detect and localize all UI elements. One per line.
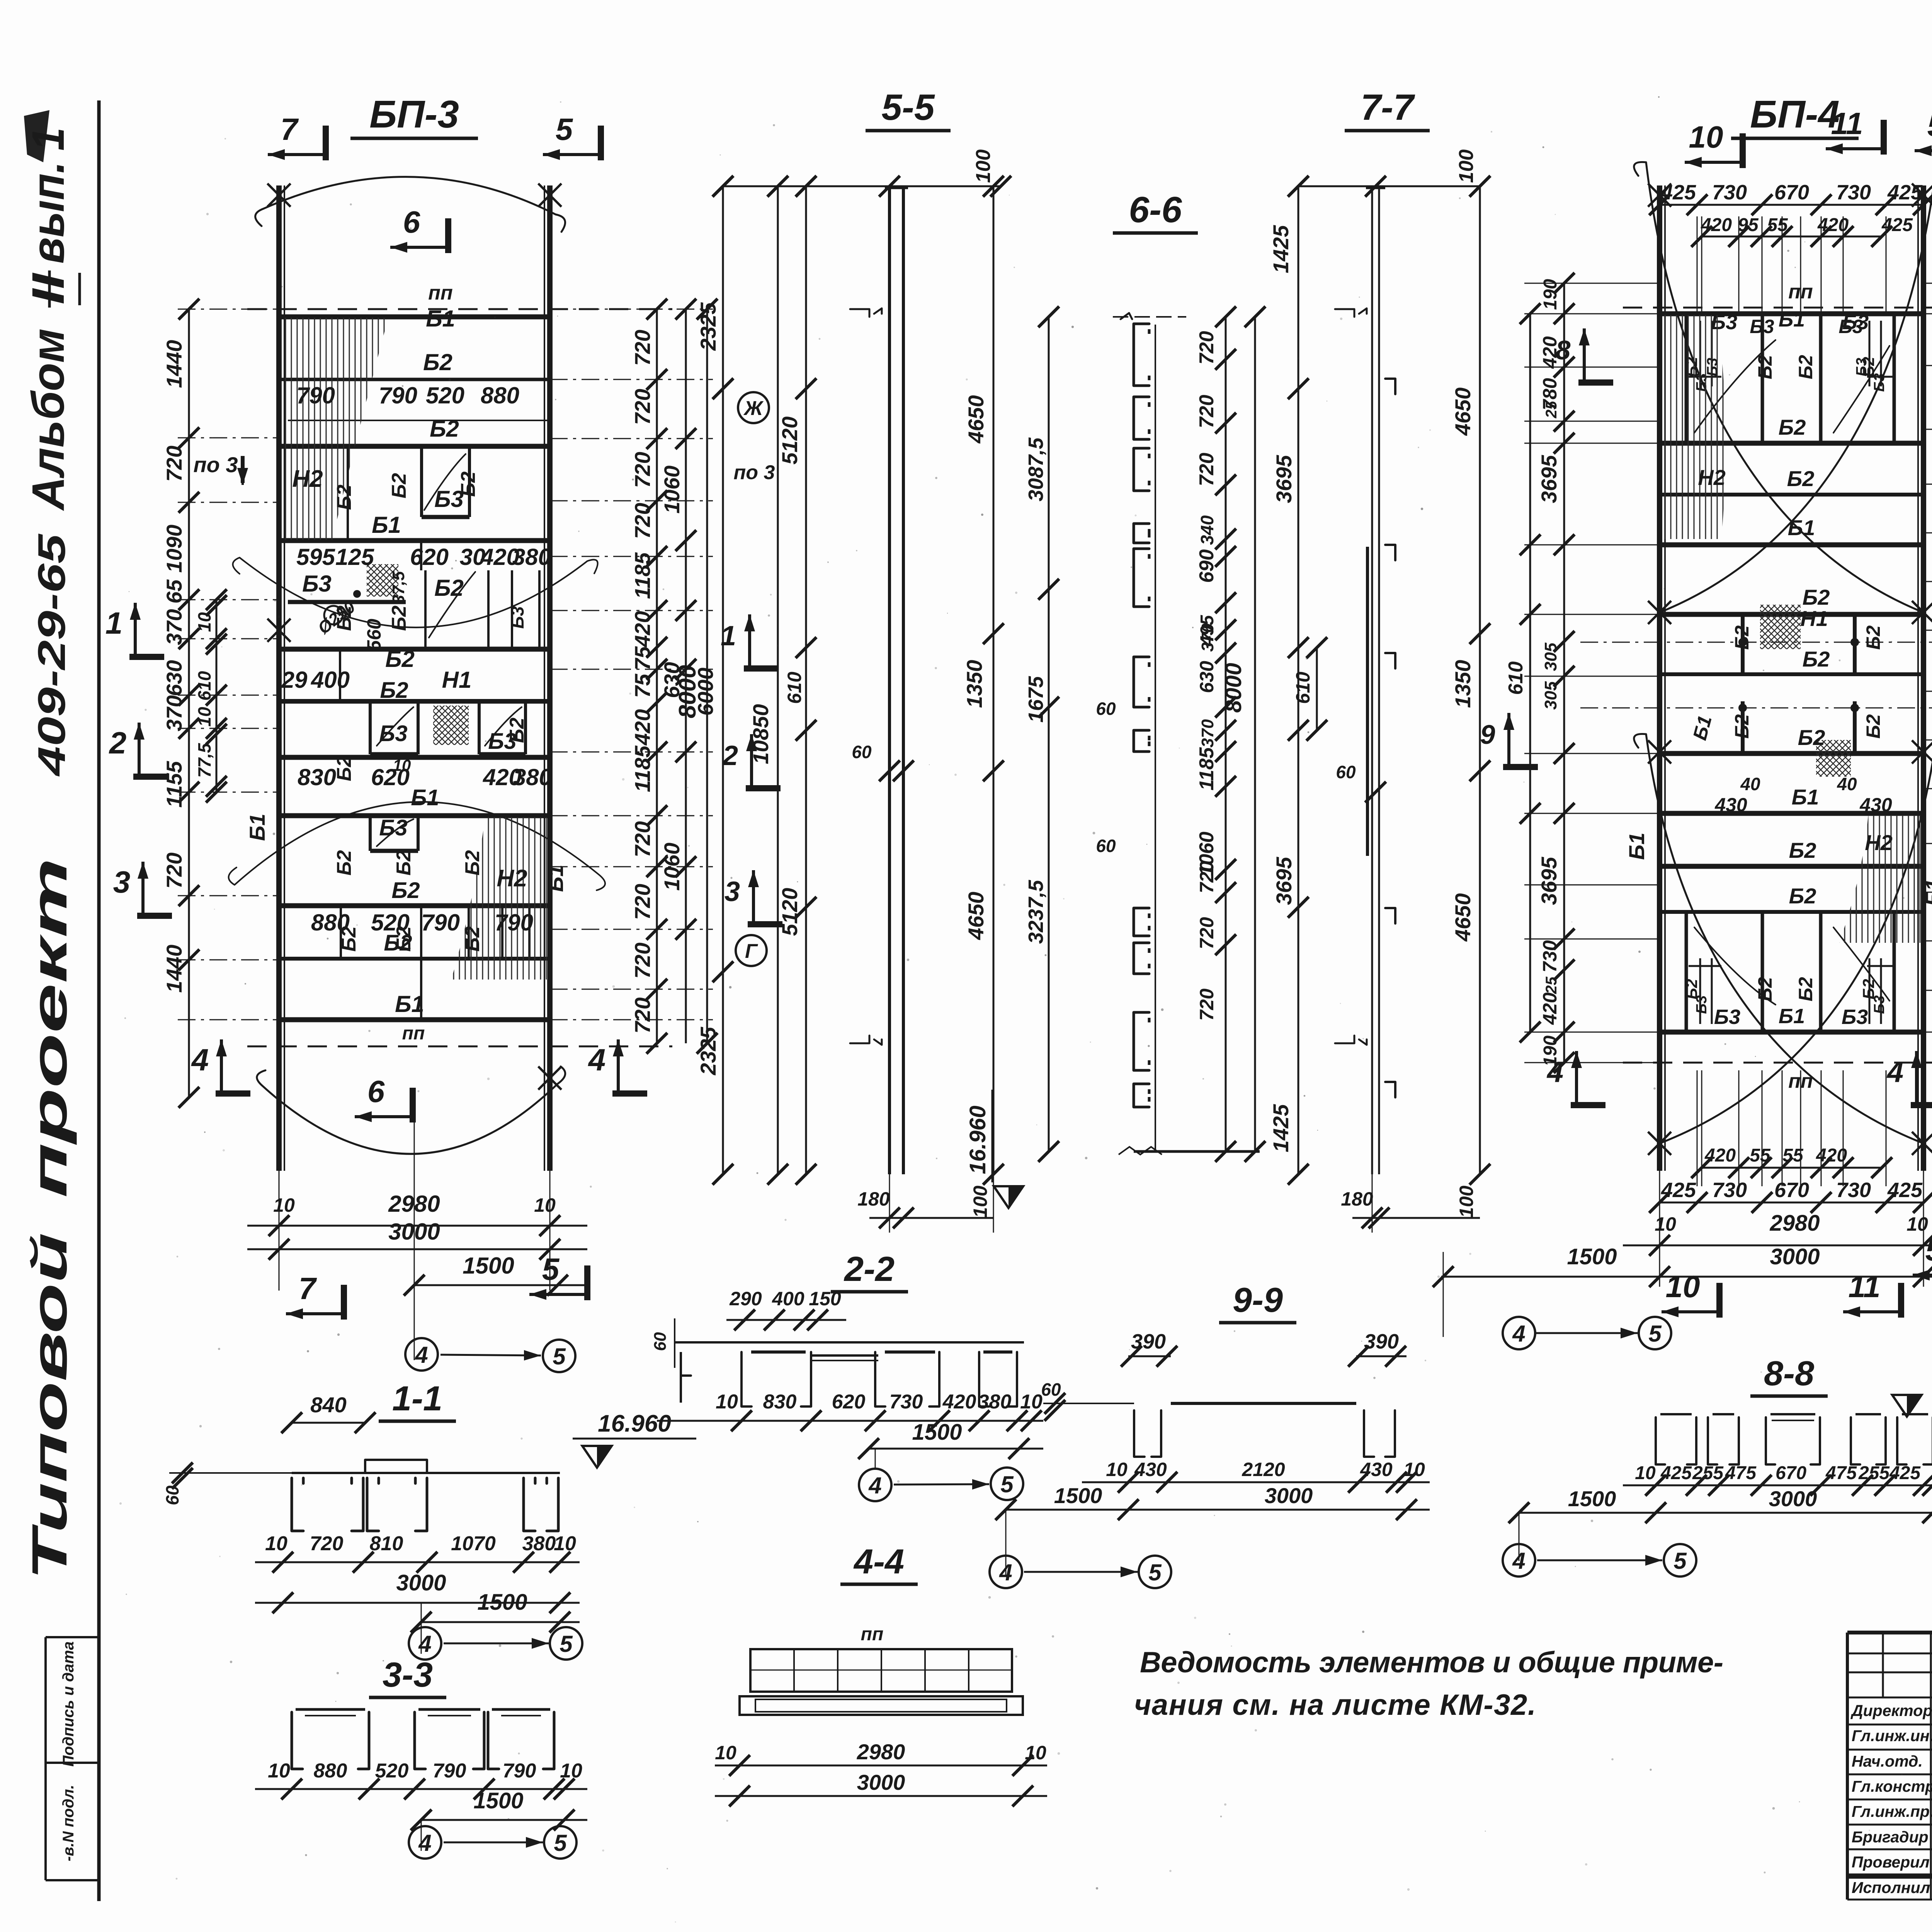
svg-text:4: 4	[415, 1342, 428, 1368]
svg-text:420: 420	[1817, 215, 1849, 235]
svg-text:60: 60	[1096, 699, 1116, 719]
svg-text:790: 790	[296, 383, 335, 408]
svg-text:390: 390	[1364, 1330, 1399, 1353]
svg-text:Б1: Б1	[1624, 833, 1649, 860]
svg-text:720: 720	[1196, 453, 1218, 486]
svg-text:720: 720	[630, 821, 655, 857]
svg-text:Б2: Б2	[1787, 466, 1815, 491]
svg-text:Б1: Б1	[1792, 785, 1819, 809]
svg-text:по 3: по 3	[193, 452, 238, 477]
svg-text:5: 5	[560, 1631, 573, 1657]
svg-text:720: 720	[1196, 988, 1218, 1021]
svg-text:6: 6	[403, 205, 420, 239]
svg-text:720: 720	[630, 942, 655, 978]
svg-text:10: 10	[273, 1194, 295, 1216]
svg-text:Б2: Б2	[333, 850, 355, 876]
svg-text:610: 610	[1292, 672, 1314, 704]
svg-text:Б1: Б1	[543, 865, 568, 892]
svg-text:Б2: Б2	[506, 718, 528, 743]
svg-text:10: 10	[715, 1742, 736, 1764]
svg-text:1: 1	[23, 128, 74, 151]
svg-text:4: 4	[999, 1560, 1012, 1585]
svg-text:3000: 3000	[1769, 1486, 1817, 1511]
svg-text:Б3: Б3	[1750, 316, 1774, 337]
svg-text:2: 2	[109, 726, 127, 760]
svg-text:5: 5	[556, 112, 573, 146]
svg-text:4: 4	[1512, 1548, 1525, 1574]
svg-text:пп: пп	[402, 1023, 425, 1044]
svg-text:10: 10	[1020, 1391, 1043, 1413]
svg-text:10: 10	[1655, 1213, 1676, 1235]
svg-text:Б2: Б2	[333, 756, 355, 781]
svg-text:1185: 1185	[630, 552, 655, 599]
svg-text:4: 4	[1886, 1056, 1903, 1088]
svg-text:2980: 2980	[1769, 1211, 1820, 1236]
svg-text:Б2: Б2	[1803, 647, 1830, 671]
svg-text:Б1: Б1	[395, 991, 424, 1017]
svg-text:380: 380	[522, 1532, 556, 1555]
svg-text:4: 4	[1512, 1321, 1525, 1347]
svg-text:720: 720	[162, 446, 186, 481]
svg-text:10: 10	[1666, 1269, 1700, 1304]
svg-text:610: 610	[194, 671, 214, 701]
svg-text:Б2: Б2	[1789, 838, 1816, 862]
svg-text:370: 370	[1198, 623, 1217, 652]
svg-text:6-6: 6-6	[1129, 189, 1182, 230]
svg-text:370: 370	[162, 695, 186, 731]
svg-text:425: 425	[1661, 181, 1696, 204]
svg-text:880: 880	[314, 1760, 347, 1782]
svg-text:95: 95	[1738, 215, 1759, 235]
svg-text:Б1: Б1	[1779, 1005, 1805, 1028]
svg-text:10: 10	[554, 1532, 576, 1555]
svg-text:720: 720	[630, 997, 655, 1033]
svg-text:37,5: 37,5	[389, 571, 408, 604]
svg-text:2980: 2980	[857, 1740, 905, 1764]
svg-text:Б3: Б3	[1838, 316, 1863, 337]
svg-text:1425: 1425	[1269, 1104, 1293, 1152]
svg-text:380: 380	[513, 764, 552, 790]
svg-text:Б2: Б2	[1798, 725, 1825, 750]
svg-text:Подпись и дата: Подпись и дата	[60, 1641, 77, 1767]
svg-text:Б2: Б2	[1779, 415, 1806, 439]
svg-text:400: 400	[772, 1288, 804, 1310]
svg-text:670: 670	[1774, 181, 1809, 204]
svg-text:5-5: 5-5	[881, 87, 935, 128]
svg-text:730: 730	[889, 1391, 923, 1413]
svg-text:1440: 1440	[162, 340, 186, 388]
svg-text:Гл.констр.: Гл.констр.	[1852, 1777, 1932, 1795]
svg-text:1500: 1500	[912, 1420, 962, 1445]
svg-text:840: 840	[310, 1393, 346, 1417]
svg-text:75: 75	[630, 673, 655, 698]
svg-text:Б3: Б3	[1842, 1005, 1868, 1029]
svg-text:Б2: Б2	[388, 605, 410, 631]
svg-text:730: 730	[1836, 1179, 1871, 1202]
svg-text:290: 290	[729, 1288, 762, 1310]
svg-text:6000: 6000	[693, 668, 718, 716]
svg-text:Альбом: Альбом	[23, 328, 74, 511]
svg-text:830: 830	[298, 764, 336, 790]
svg-text:430: 430	[1134, 1459, 1167, 1480]
svg-text:10: 10	[1635, 1463, 1656, 1483]
svg-text:670: 670	[1774, 1179, 1809, 1202]
svg-text:180: 180	[857, 1188, 890, 1210]
svg-text:720: 720	[1196, 331, 1218, 365]
svg-text:Г: Г	[745, 940, 758, 963]
svg-text:4: 4	[418, 1631, 431, 1657]
svg-text:4650: 4650	[1451, 388, 1475, 436]
svg-text:520: 520	[426, 383, 464, 408]
svg-text:1350: 1350	[962, 660, 986, 708]
svg-text:40: 40	[1837, 774, 1857, 794]
svg-text:Б2: Б2	[423, 349, 452, 375]
svg-text:630: 630	[1196, 661, 1218, 693]
svg-text:5: 5	[553, 1344, 566, 1369]
svg-text:5120: 5120	[777, 888, 802, 936]
svg-text:1185: 1185	[1196, 747, 1218, 791]
svg-text:10: 10	[560, 1760, 582, 1782]
svg-text:1060: 1060	[660, 466, 684, 514]
svg-text:10: 10	[393, 756, 411, 774]
svg-text:1500: 1500	[1567, 1244, 1617, 1269]
svg-text:проект: проект	[22, 858, 77, 1198]
svg-text:730: 730	[1712, 1179, 1747, 1202]
svg-text:730: 730	[1539, 940, 1561, 973]
svg-text:Исполнил: Исполнил	[1852, 1879, 1930, 1896]
svg-text:БП-3: БП-3	[369, 93, 459, 136]
svg-text:10: 10	[265, 1532, 287, 1555]
svg-text:720: 720	[1196, 395, 1218, 429]
svg-text:3695: 3695	[1537, 455, 1561, 503]
svg-text:16.960: 16.960	[598, 1410, 671, 1437]
svg-text:Б2: Б2	[434, 575, 464, 601]
svg-text:100: 100	[1456, 1185, 1477, 1218]
svg-text:255: 255	[1858, 1463, 1890, 1483]
svg-text:4650: 4650	[1451, 893, 1475, 942]
svg-text:3000: 3000	[396, 1570, 446, 1595]
svg-text:10: 10	[268, 1760, 290, 1782]
svg-text:3000: 3000	[1770, 1244, 1820, 1269]
svg-text:1500: 1500	[477, 1590, 527, 1615]
svg-text:2-2: 2-2	[844, 1250, 895, 1289]
svg-text:2120: 2120	[1242, 1459, 1285, 1480]
svg-text:75: 75	[630, 646, 655, 670]
svg-text:60: 60	[1096, 836, 1116, 856]
svg-text:1: 1	[105, 606, 123, 640]
svg-text:7-7: 7-7	[1361, 87, 1415, 128]
svg-text:4-4: 4-4	[853, 1543, 904, 1581]
svg-text:4: 4	[191, 1043, 209, 1077]
svg-text:3695: 3695	[1272, 857, 1296, 905]
svg-text:11: 11	[1831, 106, 1863, 141]
svg-text:Н1: Н1	[442, 667, 472, 693]
svg-text:60: 60	[1336, 762, 1356, 782]
svg-text:-в.N подл.: -в.N подл.	[60, 1785, 77, 1861]
svg-text:Н1: Н1	[1800, 606, 1828, 631]
svg-text:1500: 1500	[473, 1788, 523, 1813]
svg-text:430: 430	[1360, 1459, 1393, 1480]
svg-text:1: 1	[721, 621, 736, 651]
svg-text:Н2: Н2	[1865, 830, 1893, 855]
svg-text:Б3: Б3	[1871, 995, 1888, 1014]
svg-text:6: 6	[367, 1074, 385, 1109]
svg-text:720: 720	[630, 452, 655, 488]
svg-text:420: 420	[1539, 992, 1561, 1025]
svg-text:Б2: Б2	[1754, 977, 1776, 1001]
svg-text:Б1: Б1	[411, 785, 439, 810]
svg-text:Б2: Б2	[385, 646, 415, 672]
svg-text:11: 11	[1848, 1269, 1880, 1304]
svg-text:Директор: Директор	[1850, 1702, 1932, 1719]
svg-text:790: 790	[503, 1760, 536, 1782]
svg-text:425: 425	[1887, 181, 1923, 204]
svg-text:4: 4	[588, 1043, 606, 1077]
svg-text:630: 630	[162, 660, 186, 696]
svg-text:1070: 1070	[451, 1532, 496, 1555]
svg-text:880: 880	[311, 910, 350, 935]
svg-text:720: 720	[630, 330, 655, 366]
svg-text:420: 420	[1816, 1145, 1847, 1166]
svg-text:475: 475	[1825, 1463, 1857, 1483]
svg-text:Б1: Б1	[245, 814, 269, 841]
svg-text:610: 610	[1505, 662, 1527, 695]
svg-text:730: 730	[1836, 181, 1871, 204]
svg-text:430: 430	[1714, 794, 1747, 816]
svg-text:Гл.инж.ин.: Гл.инж.ин.	[1852, 1727, 1932, 1745]
svg-text:Б3: Б3	[507, 606, 527, 629]
svg-text:1-1: 1-1	[392, 1379, 442, 1418]
svg-text:Н2: Н2	[497, 865, 527, 892]
svg-text:340: 340	[1197, 515, 1217, 545]
svg-text:Б3: Б3	[1854, 358, 1870, 376]
svg-text:8-8: 8-8	[1764, 1354, 1814, 1393]
svg-text:Б2: Б2	[1789, 884, 1816, 908]
svg-text:560: 560	[363, 619, 385, 651]
svg-text:Б2: Б2	[1795, 977, 1816, 1001]
svg-text:305: 305	[1541, 643, 1560, 671]
svg-text:55: 55	[1767, 215, 1788, 235]
svg-text:2325: 2325	[696, 1027, 720, 1075]
svg-text:3000: 3000	[1265, 1483, 1313, 1508]
svg-text:3: 3	[724, 876, 740, 907]
svg-text:10: 10	[1106, 1459, 1128, 1480]
svg-text:Б3: Б3	[1714, 1005, 1740, 1029]
svg-text:Б3: Б3	[1694, 995, 1710, 1014]
svg-text:425: 425	[1661, 1179, 1696, 1202]
svg-text:595: 595	[296, 544, 336, 570]
svg-text:720: 720	[162, 852, 186, 888]
svg-text:7: 7	[299, 1271, 317, 1306]
svg-text:520: 520	[375, 1760, 409, 1782]
svg-text:Б3: Б3	[379, 815, 407, 840]
svg-text:Б2: Б2	[1862, 625, 1884, 650]
svg-text:10: 10	[1689, 120, 1723, 154]
svg-text:125: 125	[335, 544, 375, 570]
svg-text:Нач.отд.: Нач.отд.	[1852, 1752, 1923, 1770]
svg-text:1350: 1350	[1451, 660, 1475, 708]
svg-text:420: 420	[1539, 336, 1561, 369]
svg-text:Н2: Н2	[1698, 465, 1726, 490]
svg-text:9-9: 9-9	[1233, 1281, 1283, 1320]
svg-text:720: 720	[310, 1532, 344, 1555]
svg-text:25: 25	[1543, 976, 1560, 994]
svg-text:5: 5	[554, 1830, 567, 1856]
svg-text:425: 425	[1889, 1463, 1921, 1483]
svg-text:255: 255	[1692, 1463, 1724, 1483]
svg-text:430: 430	[1859, 794, 1892, 816]
svg-text:720: 720	[630, 503, 655, 539]
svg-text:7: 7	[281, 112, 299, 146]
svg-text:730: 730	[1712, 181, 1747, 204]
svg-text:720: 720	[630, 884, 655, 920]
svg-text:3000: 3000	[857, 1770, 905, 1794]
svg-text:620: 620	[832, 1391, 866, 1413]
svg-text:670: 670	[1776, 1463, 1806, 1483]
svg-text:1440: 1440	[162, 945, 186, 993]
svg-text:720: 720	[1196, 861, 1218, 893]
svg-text:370: 370	[1198, 719, 1217, 748]
svg-text:40: 40	[1740, 774, 1760, 794]
svg-text:790: 790	[379, 383, 417, 408]
svg-text:1500: 1500	[463, 1253, 514, 1279]
svg-text:Б3: Б3	[379, 721, 407, 746]
svg-text:420: 420	[1701, 215, 1732, 235]
svg-text:3695: 3695	[1537, 857, 1561, 905]
svg-text:10: 10	[1403, 1459, 1425, 1480]
svg-text:Б3: Б3	[302, 571, 332, 597]
svg-text:5: 5	[1927, 108, 1932, 143]
svg-text:5: 5	[1648, 1321, 1662, 1347]
svg-text:29: 29	[281, 667, 308, 693]
svg-text:16.960: 16.960	[965, 1105, 990, 1174]
svg-text:1500: 1500	[1054, 1483, 1102, 1508]
svg-text:5120: 5120	[777, 417, 802, 465]
svg-text:3: 3	[113, 865, 131, 899]
svg-text:10: 10	[1025, 1742, 1046, 1764]
svg-text:Б2: Б2	[333, 485, 355, 510]
svg-text:60: 60	[1041, 1379, 1061, 1400]
svg-text:Бригадир: Бригадир	[1852, 1828, 1929, 1846]
svg-text:620: 620	[410, 544, 449, 570]
svg-text:420: 420	[630, 709, 655, 745]
svg-text:Б2: Б2	[461, 850, 484, 876]
svg-text:Гл.инж.пр.: Гл.инж.пр.	[1852, 1803, 1932, 1820]
svg-text:Б2: Б2	[430, 416, 459, 442]
svg-text:77,5: 77,5	[194, 743, 214, 778]
svg-text:720: 720	[1196, 917, 1218, 949]
svg-text:Типовой: Типовой	[22, 1233, 77, 1580]
svg-text:10: 10	[194, 707, 214, 727]
svg-text:1425: 1425	[1269, 225, 1293, 273]
svg-text:5: 5	[542, 1252, 560, 1286]
svg-text:Н2: Н2	[292, 466, 323, 492]
svg-text:5: 5	[1000, 1471, 1014, 1497]
svg-text:вып.: вып.	[23, 162, 74, 264]
svg-text:2: 2	[722, 740, 738, 771]
svg-text:Б1: Б1	[426, 306, 455, 332]
svg-text:Б2: Б2	[461, 926, 484, 952]
svg-text:810: 810	[370, 1532, 403, 1555]
svg-text:2325: 2325	[696, 302, 720, 351]
svg-text:100: 100	[1455, 150, 1478, 183]
svg-text:55: 55	[1750, 1145, 1771, 1166]
svg-text:Проверил: Проверил	[1852, 1853, 1930, 1871]
svg-text:5: 5	[1148, 1560, 1162, 1585]
svg-text:4: 4	[418, 1830, 431, 1856]
svg-text:3237,5: 3237,5	[1024, 879, 1048, 944]
svg-text:610: 610	[784, 672, 805, 704]
svg-text:830: 830	[763, 1391, 797, 1413]
svg-text:10: 10	[194, 612, 214, 632]
svg-text:Б2: Б2	[1795, 355, 1816, 379]
svg-text:пп: пп	[428, 282, 453, 304]
svg-text:420: 420	[942, 1391, 976, 1413]
svg-text:Б2: Б2	[393, 850, 415, 876]
svg-text:690: 690	[1196, 549, 1218, 583]
svg-text:3087,5: 3087,5	[1024, 437, 1048, 501]
svg-text:3695: 3695	[1272, 455, 1296, 503]
svg-text:520: 520	[371, 910, 410, 935]
svg-text:475: 475	[1725, 1463, 1757, 1483]
svg-text:100: 100	[969, 1185, 991, 1218]
svg-text:8000: 8000	[1221, 663, 1246, 713]
svg-text:Б3: Б3	[1871, 373, 1888, 392]
svg-text:Б2: Б2	[1754, 355, 1776, 379]
svg-text:880: 880	[481, 383, 519, 408]
svg-text:Б2: Б2	[380, 678, 408, 703]
svg-text:420: 420	[1704, 1145, 1736, 1166]
svg-text:Ж: Ж	[743, 397, 764, 420]
svg-text:720: 720	[630, 389, 655, 425]
svg-text:790: 790	[433, 1760, 466, 1782]
svg-text:420: 420	[630, 611, 655, 647]
svg-text:1675: 1675	[1024, 676, 1048, 723]
svg-text:1155: 1155	[162, 761, 186, 808]
svg-text:380: 380	[512, 544, 551, 570]
svg-text:400: 400	[311, 667, 350, 693]
svg-text:790: 790	[495, 910, 533, 935]
svg-text:25: 25	[1543, 401, 1560, 418]
svg-text:425: 425	[1887, 1179, 1923, 1202]
svg-text:425: 425	[1660, 1463, 1692, 1483]
svg-text:5: 5	[1673, 1548, 1687, 1574]
svg-text:370: 370	[162, 609, 186, 645]
svg-text:4650: 4650	[964, 395, 988, 444]
svg-text:150: 150	[809, 1288, 841, 1310]
svg-text:10: 10	[716, 1391, 738, 1413]
svg-text:4650: 4650	[964, 892, 988, 940]
svg-text:60: 60	[852, 742, 872, 762]
svg-text:Б2: Б2	[1803, 585, 1830, 609]
svg-text:10: 10	[1906, 1213, 1928, 1235]
svg-text:100: 100	[972, 150, 995, 183]
svg-text:180: 180	[1341, 1188, 1373, 1210]
svg-text:190: 190	[1540, 1036, 1561, 1066]
svg-text:чания см. на листе КМ-32.: чания см. на листе КМ-32.	[1134, 1689, 1536, 1721]
svg-text:3-3: 3-3	[383, 1656, 433, 1694]
svg-text:790: 790	[421, 910, 460, 935]
svg-text:4: 4	[868, 1473, 881, 1498]
svg-text:Б2: Б2	[1731, 714, 1753, 738]
svg-text:9: 9	[1480, 719, 1495, 750]
svg-text:1500: 1500	[1568, 1486, 1616, 1511]
svg-text:по 3: по 3	[734, 461, 775, 484]
svg-text:Б1: Б1	[372, 512, 401, 538]
svg-text:Б2: Б2	[391, 878, 420, 903]
svg-text:Ведомость элементов и общие: Ведомость элементов и общие приме-	[1140, 1646, 1723, 1679]
svg-text:1090: 1090	[162, 525, 186, 573]
